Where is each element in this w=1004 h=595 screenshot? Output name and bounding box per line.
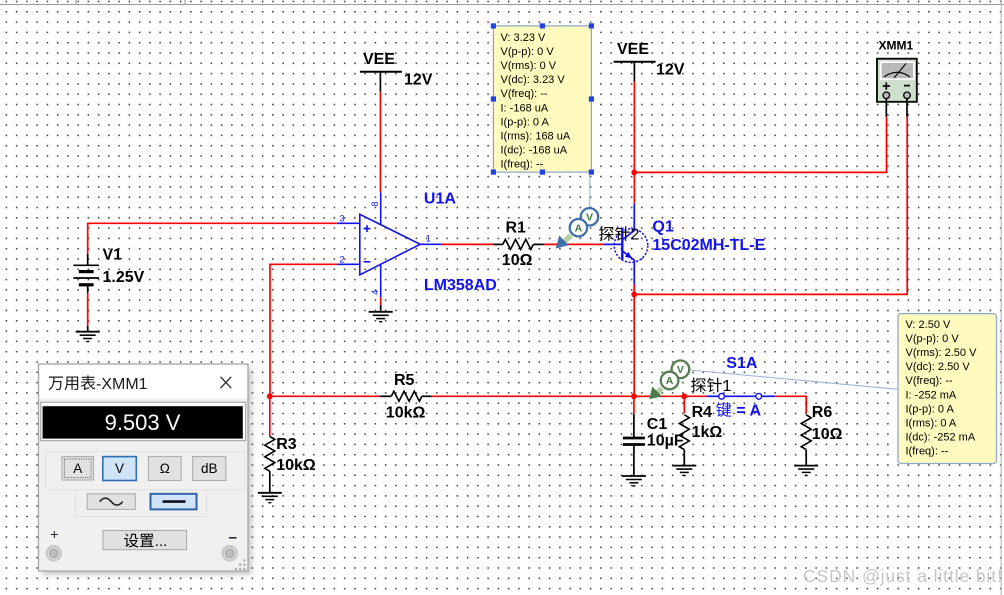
R5 value 10k ohm [386,405,426,422]
svg-text:I(rms): 168 uA: I(rms): 168 uA [501,130,571,142]
svg-text:-XMM1: -XMM1 [96,376,148,393]
svg-text:I(p-p): 0 A: I(p-p): 0 A [501,116,550,128]
svg-text:A: A [575,222,583,234]
S1A label [726,355,758,372]
svg-text:1kΩ: 1kΩ [692,424,723,441]
R4 label [692,404,713,421]
svg-text:A: A [73,461,82,476]
VEE 1 value 12V [404,72,433,89]
ground at V1 [76,326,100,342]
dialog button A [62,457,94,480]
svg-text:CSDN @just a little bit!: CSDN @just a little bit! [803,566,1003,586]
svg-text:VEE: VEE [363,51,395,68]
op-amp U1A [337,192,441,297]
svg-text:R4: R4 [692,404,713,421]
svg-text:V(p-p): 0 V: V(p-p): 0 V [906,333,960,345]
svg-text:...: ... [155,533,168,550]
svg-text:V(p-p): 0 V: V(p-p): 0 V [501,46,555,58]
svg-text:XMM1: XMM1 [879,39,914,53]
ground at R6 [794,466,818,476]
wire Q1 emitter lead to junction [633,285,635,295]
svg-text:V(freq): --: V(freq): -- [501,88,548,100]
measurement probe 1 [649,361,689,400]
svg-text:VEE: VEE [617,41,649,58]
dialog button dB [193,457,226,481]
C1 label [647,416,668,433]
wire op-amp pin 2 feedback to node A [270,264,337,396]
svg-text:R1: R1 [506,220,527,237]
svg-text:V: 2.50 V: V: 2.50 V [906,319,952,331]
svg-text:dB: dB [201,461,218,476]
dialog close button [221,377,232,388]
svg-text:3: 3 [340,214,345,224]
svg-text:V(rms): 0 V: V(rms): 0 V [501,60,557,72]
svg-text:10Ω: 10Ω [812,426,843,443]
wire emitter junction down to bottom node [633,294,635,396]
svg-text:V: V [586,212,593,224]
svg-text:I(dc): -168 uA: I(dc): -168 uA [501,144,568,156]
Q1 value 15C02MH-TL-E [652,237,765,254]
dialog button DC selected [151,494,197,510]
dialog settings button [103,531,187,551]
op-amp pin 1 [426,233,431,243]
R5 label [394,372,415,389]
switch S1A [707,393,776,399]
measurement probe 2 callout line [589,172,591,208]
Q1 label [652,219,673,236]
svg-text:V(dc): 2.50 V: V(dc): 2.50 V [906,361,971,373]
power VEE 1 [360,51,402,91]
measurement box probe 2 [493,26,591,172]
dialog title [49,375,148,392]
wire op-amp output to R1 [441,243,493,245]
svg-text:1: 1 [426,233,431,243]
svg-text:8: 8 [370,201,380,206]
R3 value 10k ohm [276,457,316,474]
svg-text:V: 3.23 V: V: 3.23 V [501,32,547,44]
svg-text:15C02MH-TL-E: 15C02MH-TL-E [652,237,765,254]
svg-text:12V: 12V [656,62,685,79]
svg-text:9.503 V: 9.503 V [105,410,181,435]
svg-text:I(p-p): 0 A: I(p-p): 0 A [906,403,955,415]
svg-text:R6: R6 [812,404,833,421]
wire node A to R5 left [270,395,380,397]
battery V1 [73,254,99,293]
resistor R3 [265,437,275,493]
svg-text:1: 1 [723,378,732,395]
multimeter dialog window [39,364,252,575]
svg-text:I(freq): --: I(freq): -- [906,445,949,457]
svg-text:Ω: Ω [160,461,170,476]
wire op-amp pin 4 to ground [380,297,382,312]
svg-text:V: V [677,364,684,376]
svg-text:2: 2 [340,254,345,264]
measurement probe 1 callout line [689,370,898,389]
capacitor C1 [623,414,645,476]
junction collector-XMM1 [631,170,637,176]
wire node to R4 top [683,396,685,413]
S1A key label [716,402,761,419]
wire V1 bottom to ground [87,293,89,326]
junction node A [267,393,273,399]
op-amp label U1A [424,191,456,208]
op-amp pin 8 [370,201,380,206]
ground at R3 [258,493,282,503]
op-amp pin 2 [340,254,345,264]
svg-text:10kΩ: 10kΩ [386,405,426,422]
dialog resize grip [235,559,246,570]
svg-text:4: 4 [370,290,380,295]
R4 value 1k ohm [692,424,723,441]
dialog button ohm [148,457,181,481]
junction bottom node at C1 [631,393,637,399]
measurement box probe 2 selection handles [491,23,594,174]
ground at op-amp pin 4 [369,312,393,322]
transistor Q1 [604,203,648,284]
R1 label [506,220,527,237]
wire R5 right to emitter node [432,395,634,397]
svg-text:= A: = A [732,403,762,420]
ground at R4 [672,466,696,476]
svg-text:V(freq): --: V(freq): -- [906,375,953,387]
measurement box probe 1 [898,314,997,464]
svg-text:R5: R5 [394,372,415,389]
svg-text:A: A [666,375,674,387]
probe 2 label [599,226,639,243]
R1 value 10 ohm [502,252,533,269]
V1 label [103,247,123,264]
op-amp pin 4 [370,290,380,295]
multimeter XMM1 icon [877,59,917,117]
R6 label [812,404,833,421]
svg-text:R3: R3 [276,436,297,453]
ground at C1 [622,476,646,486]
dialog display 9.503 V [41,402,246,441]
V1 value 1.25V [103,269,145,286]
dialog button AC [87,494,135,510]
power VEE 2 [614,41,656,81]
svg-text:2: 2 [631,227,640,244]
svg-text:V(rms): 2.50 V: V(rms): 2.50 V [906,347,978,359]
svg-text:I(freq): --: I(freq): -- [501,158,544,170]
svg-text:I(rms): 0 A: I(rms): 0 A [906,417,957,429]
svg-text:C1: C1 [647,416,668,433]
probe 1 label [691,378,731,395]
wire switch S1A to R6 [775,396,806,413]
svg-text:Q1: Q1 [652,219,673,236]
svg-text:I: -168 uA: I: -168 uA [501,102,549,114]
dialog plus terminal [47,526,61,560]
svg-text:I(dc): -252 mA: I(dc): -252 mA [906,431,976,443]
R6 value 10 ohm [812,426,843,443]
svg-text:+: + [50,526,58,542]
dialog minus terminal [223,538,237,561]
wire emitter node to XMM1 minus [634,117,907,295]
resistor R1 [493,239,544,249]
measurement probe 2 [556,208,598,248]
wire VEE2 to Q1 collector [633,82,635,204]
wire V1 top to op-amp pin 3 [88,223,337,254]
dialog button V selected [103,457,137,481]
svg-text:U1A: U1A [424,191,456,208]
wire VEE1 to op-amp pin 8 [379,92,381,193]
wire node A to R3 [269,396,271,436]
svg-text:LM358AD: LM358AD [424,277,497,294]
XMM1 label [879,39,914,53]
resistor R4 [679,415,689,466]
svg-text:1.25V: 1.25V [103,269,145,286]
dialog button group frames [46,452,245,517]
svg-text:10kΩ: 10kΩ [276,457,316,474]
watermark [803,566,1003,586]
junction bottom node at R4 [681,393,687,399]
svg-text:V1: V1 [103,247,123,264]
wire node to C1 top [633,396,635,414]
svg-text:I: -252 mA: I: -252 mA [906,389,957,401]
op-amp pin 3 [340,214,345,224]
svg-text:S1A: S1A [726,355,758,372]
svg-text:V(dc): 3.23 V: V(dc): 3.23 V [501,74,566,86]
op-amp value LM358AD [424,277,497,294]
junction emitter-XMM1 [631,292,637,298]
resistor R5 [380,391,432,401]
resistor R6 [801,415,811,466]
wire bottom node to switch S1A [634,395,707,397]
R3 label [276,436,297,453]
wire collector node to XMM1 plus [634,117,886,173]
C1 value 10uF [647,433,684,450]
svg-text:V: V [115,461,124,476]
wire R1 to Q1 base [544,243,605,245]
svg-text:10Ω: 10Ω [502,252,533,269]
VEE 2 value 12V [656,62,685,79]
svg-text:12V: 12V [404,72,433,89]
